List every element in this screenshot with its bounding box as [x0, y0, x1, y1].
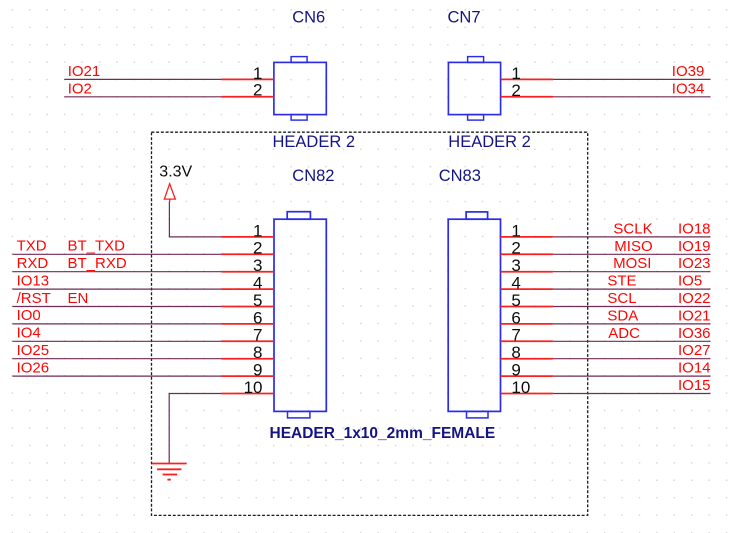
svg-text:BT_TXD: BT_TXD: [68, 238, 126, 255]
svg-text:1: 1: [253, 221, 262, 240]
svg-text:/RST: /RST: [17, 290, 51, 307]
svg-text:4: 4: [511, 274, 520, 293]
svg-text:2: 2: [511, 239, 520, 258]
svg-text:TXD: TXD: [17, 238, 47, 255]
CN82 pin lines 1-10: [221, 237, 274, 394]
svg-text:IO21: IO21: [68, 63, 101, 80]
CN82 pin numbers 1-10: [244, 221, 263, 397]
svg-text:MISO: MISO: [614, 238, 652, 255]
svg-text:8: 8: [511, 343, 520, 362]
CN7 pin 2 line: [501, 96, 553, 98]
svg-text:STE: STE: [607, 273, 636, 290]
svg-text:IO21: IO21: [678, 307, 711, 324]
svg-text:3: 3: [511, 256, 520, 275]
svg-text:3: 3: [253, 256, 262, 275]
svg-text:EN: EN: [68, 290, 89, 307]
svg-text:IO36: IO36: [678, 325, 711, 342]
svg-text:IO15: IO15: [678, 377, 711, 394]
CN7 pin 1 line: [501, 78, 553, 80]
svg-text:RXD: RXD: [17, 255, 49, 272]
CN6 pin 1 line: [221, 78, 274, 80]
svg-text:HEADER 2: HEADER 2: [273, 133, 356, 151]
svg-text:1: 1: [511, 64, 520, 83]
svg-text:IO27: IO27: [678, 342, 711, 359]
wire net IO34: [553, 96, 711, 98]
wire 3.3V to CN82 pin 1: [169, 202, 221, 237]
svg-text:CN83: CN83: [439, 167, 481, 185]
svg-text:7: 7: [253, 326, 262, 345]
svg-text:IO18: IO18: [678, 220, 711, 237]
svg-text:10: 10: [244, 378, 263, 397]
svg-text:IO25: IO25: [17, 342, 50, 359]
svg-text:MOSI: MOSI: [613, 255, 651, 272]
power port 3.3V arrow symbol: [164, 184, 175, 202]
CN82 left wires rows 2-9: [12, 254, 221, 376]
wire net IO39: [553, 78, 711, 80]
svg-text:CN82: CN82: [292, 167, 334, 185]
connector CN83 body: [448, 212, 500, 418]
svg-text:HEADER 2: HEADER 2: [448, 133, 531, 151]
svg-text:9: 9: [253, 361, 262, 380]
svg-text:8: 8: [253, 343, 262, 362]
svg-text:9: 9: [511, 361, 520, 380]
svg-text:2: 2: [253, 239, 262, 258]
connector CN7 body: [448, 57, 500, 121]
svg-text:5: 5: [511, 291, 520, 310]
svg-text:IO34: IO34: [672, 80, 705, 97]
svg-text:3.3V: 3.3V: [159, 164, 192, 181]
svg-text:CN7: CN7: [448, 9, 481, 27]
CN6 pin 2 line: [221, 96, 274, 98]
svg-text:CN6: CN6: [292, 9, 325, 27]
wire net IO21: [64, 78, 221, 80]
svg-text:SDA: SDA: [607, 307, 638, 324]
ground symbol: [152, 464, 187, 480]
svg-text:SCLK: SCLK: [613, 220, 652, 237]
svg-text:IO39: IO39: [672, 63, 705, 80]
svg-text:IO5: IO5: [678, 273, 702, 290]
dashed boundary box: [152, 132, 588, 515]
connector CN6 body: [274, 57, 326, 121]
svg-text:1: 1: [511, 221, 520, 240]
svg-text:6: 6: [253, 308, 262, 327]
CN83 pin numbers 1-10: [511, 221, 530, 397]
svg-text:IO0: IO0: [17, 307, 41, 324]
CN83 right wires rows 1-10: [553, 237, 711, 394]
svg-text:ADC: ADC: [608, 325, 640, 342]
svg-text:HEADER_1x10_2mm_FEMALE: HEADER_1x10_2mm_FEMALE: [270, 425, 496, 442]
svg-text:IO23: IO23: [678, 255, 711, 272]
svg-text:IO19: IO19: [678, 238, 711, 255]
svg-text:7: 7: [511, 326, 520, 345]
svg-text:10: 10: [511, 378, 530, 397]
svg-text:5: 5: [253, 291, 262, 310]
svg-text:4: 4: [253, 274, 262, 293]
svg-text:6: 6: [511, 308, 520, 327]
wire net IO2: [64, 96, 221, 98]
svg-text:2: 2: [511, 81, 520, 100]
svg-text:IO4: IO4: [17, 325, 41, 342]
svg-text:IO22: IO22: [678, 290, 711, 307]
svg-text:IO14: IO14: [678, 360, 711, 377]
svg-text:IO2: IO2: [68, 80, 92, 97]
svg-text:SCL: SCL: [607, 290, 636, 307]
svg-text:IO13: IO13: [17, 272, 50, 289]
wire CN82 pin 10 to ground: [169, 394, 221, 464]
svg-text:BT_RXD: BT_RXD: [68, 255, 127, 272]
CN83 pin lines 1-10: [501, 237, 553, 394]
svg-text:IO26: IO26: [17, 359, 50, 376]
svg-text:2: 2: [253, 81, 262, 100]
connector CN82 body: [274, 212, 326, 418]
